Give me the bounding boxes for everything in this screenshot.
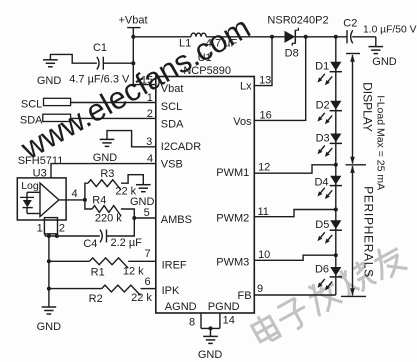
svg-text:Lx: Lx <box>240 80 252 92</box>
svg-text:2: 2 <box>59 222 65 234</box>
wire pin15 stub <box>133 84 156 86</box>
svg-text:D6: D6 <box>315 263 329 275</box>
svg-text:Vbat: Vbat <box>161 83 184 95</box>
wire pin10 PWM3 to LED node <box>254 255 335 260</box>
SDA input connector <box>43 114 71 121</box>
dimension tick top <box>346 53 360 55</box>
capacitor C1 <box>97 57 99 70</box>
svg-text:L1: L1 <box>179 37 191 49</box>
node +Vbat/rail junction <box>131 35 135 39</box>
svg-text:PWM3: PWM3 <box>216 256 249 268</box>
inductor L1 <box>191 33 206 37</box>
svg-text:AMBS: AMBS <box>161 214 192 226</box>
wire C4 to AMBS node <box>107 218 135 236</box>
photodiode inside U3 <box>26 192 28 200</box>
resistor R1 <box>90 258 129 268</box>
svg-text:16: 16 <box>259 110 271 122</box>
svg-text:FB: FB <box>238 290 252 302</box>
wire bus to R1 <box>49 260 90 262</box>
svg-text:IPK: IPK <box>162 285 180 297</box>
wire pin11 PWM2 to LED node <box>254 210 335 217</box>
svg-text:D8: D8 <box>285 47 299 59</box>
wire pin13 Lx to rail <box>254 37 272 86</box>
svg-text:SCL: SCL <box>21 99 42 111</box>
op-amp (log amp) inside U3 <box>40 183 59 217</box>
svg-text:9: 9 <box>257 283 263 295</box>
ground (AGND/PGND) <box>203 335 218 337</box>
node D3/D4 junction <box>334 163 338 167</box>
svg-text:7: 7 <box>144 248 150 260</box>
node R2 junction <box>47 287 51 291</box>
svg-text:SDA: SDA <box>20 114 43 126</box>
svg-text:3: 3 <box>146 136 152 148</box>
ground (I2CADR) <box>100 138 115 140</box>
LED D5 <box>330 220 341 229</box>
dimension tick middle <box>346 164 367 166</box>
svg-text:U1: U1 <box>198 52 212 64</box>
wire ground bus <box>48 236 50 307</box>
svg-text:12 k: 12 k <box>123 266 144 278</box>
svg-text:2.2 µF: 2.2 µF <box>110 237 142 249</box>
wire to GND <box>210 328 212 336</box>
svg-text:www.elecfans.com: www.elecfans.com <box>14 10 256 167</box>
wire U3 pin2 down <box>56 234 58 236</box>
resistor R4 <box>92 206 121 216</box>
svg-text:SDA: SDA <box>161 119 184 131</box>
resistor R2 <box>102 285 141 295</box>
node R1 junction <box>47 259 51 263</box>
wire down to GND <box>375 37 377 47</box>
svg-text:VSB: VSB <box>161 158 183 170</box>
wire diode bottom to amp <box>27 213 41 215</box>
svg-text:1.0 µF/50 V: 1.0 µF/50 V <box>363 24 417 35</box>
wire pin8 AGND down <box>200 313 202 328</box>
wire pin5 AMBS stub <box>134 217 156 219</box>
svg-text:Vos: Vos <box>233 116 252 128</box>
wire diode top to amp <box>27 191 40 193</box>
node C1 junction <box>131 61 135 65</box>
svg-text:NCP5890: NCP5890 <box>183 65 231 77</box>
svg-text:R4: R4 <box>92 195 106 207</box>
LED D1 <box>330 62 341 71</box>
wire pin4 VSB to U3 <box>51 164 156 178</box>
dimension line PERIPHERALS <box>352 166 354 296</box>
svg-text:1: 1 <box>37 222 43 234</box>
node pin1 junction <box>47 234 51 238</box>
svg-text:GND: GND <box>37 321 62 333</box>
svg-text:GND: GND <box>372 56 397 68</box>
svg-text:C4: C4 <box>83 238 97 250</box>
resistor R3 <box>88 180 121 190</box>
wire +Vbat vertical to pin15 <box>132 28 134 85</box>
op-amp driver IC U1 NCP5890 <box>156 77 255 314</box>
svg-text:GND: GND <box>198 349 223 361</box>
svg-text:4.7 µF: 4.7 µF <box>206 38 238 50</box>
wire L1 to D8 <box>206 36 284 38</box>
LED D4 <box>330 176 341 185</box>
wire pin14 PGND down <box>219 313 221 328</box>
ground (R3) <box>136 184 151 186</box>
wire pins to C4 <box>45 235 100 237</box>
wire SDA to pin2 <box>71 117 156 119</box>
wire GND to C1 <box>50 54 97 63</box>
node AGND/PGND junction <box>209 326 213 330</box>
capacitor C2 <box>346 30 348 43</box>
svg-text:14: 14 <box>223 315 235 327</box>
svg-text:D1: D1 <box>315 60 329 72</box>
wire R3 to GND <box>121 175 143 185</box>
svg-text:PWM2: PWM2 <box>216 213 249 225</box>
wire LED column <box>335 37 337 295</box>
svg-text:PERIPHERALS: PERIPHERALS <box>362 186 376 278</box>
wire pin12 PWM1 to LED node <box>254 165 335 173</box>
svg-text:8: 8 <box>189 316 195 328</box>
svg-text:GND: GND <box>37 75 62 87</box>
capacitor C4 <box>100 230 102 243</box>
svg-text:I-Load Max = 25 mA: I-Load Max = 25 mA <box>374 95 386 190</box>
wire rail to L1 <box>133 36 191 38</box>
dimension tick bottom <box>341 295 366 297</box>
svg-text:4: 4 <box>71 188 77 200</box>
node D5/D6 junction <box>334 253 338 257</box>
node D4/D5 junction <box>334 208 338 212</box>
svg-text:SCL: SCL <box>161 101 182 113</box>
svg-text:+Vbat: +Vbat <box>118 15 147 27</box>
svg-text:D2: D2 <box>316 100 330 112</box>
svg-text:220 k: 220 k <box>95 212 122 224</box>
wire R4 to pin5 <box>121 209 134 218</box>
diode D8 (Schottky) <box>285 31 296 43</box>
svg-text:PWM1: PWM1 <box>216 167 249 179</box>
svg-text:GND: GND <box>130 196 155 208</box>
svg-text:SFH5711: SFH5711 <box>18 155 64 167</box>
svg-text:R1: R1 <box>91 267 105 279</box>
svg-text:DISPLAY: DISPLAY <box>360 82 374 132</box>
watermark 电子发烧友 <box>249 311 280 345</box>
wire pin16 Vos to rail <box>254 37 305 121</box>
svg-text:D3: D3 <box>316 132 330 144</box>
SCL input connector <box>44 98 71 105</box>
svg-text:C1: C1 <box>93 42 107 54</box>
svg-text:12: 12 <box>258 162 270 174</box>
svg-text:I2CADR: I2CADR <box>161 141 201 153</box>
svg-text:IREF: IREF <box>162 260 187 272</box>
svg-text:PGND: PGND <box>208 301 240 313</box>
LED D3 <box>330 134 341 143</box>
node Lx junction <box>270 35 274 39</box>
svg-text:NSR0240P2: NSR0240P2 <box>267 14 328 26</box>
svg-text:R2: R2 <box>89 293 103 305</box>
node AMBS junction <box>132 216 136 220</box>
U3 output stage box <box>44 218 57 234</box>
svg-text:C2: C2 <box>343 18 357 30</box>
node LED column top junction <box>334 35 338 39</box>
wire pin9 FB to LED column <box>254 294 335 296</box>
svg-text:D5: D5 <box>315 219 329 231</box>
wire R1 to pin7 IREF <box>128 260 156 262</box>
wire GND to pin3 I2CADR <box>107 131 156 147</box>
wire U3 output node 4 <box>59 199 85 201</box>
+Vbat terminal bar <box>127 27 140 29</box>
svg-text:10: 10 <box>258 249 270 261</box>
wire SCL to pin1 <box>71 102 156 104</box>
node Vos junction <box>304 35 308 39</box>
node 4 junction <box>83 198 87 202</box>
LED D2 <box>330 101 341 110</box>
wire D8 to C2 <box>295 36 347 38</box>
wire R2 to pin6 IPK <box>141 288 156 290</box>
svg-text:22 k: 22 k <box>131 292 152 304</box>
wire bus to R2 <box>49 288 102 290</box>
svg-text:AGND: AGND <box>165 301 197 313</box>
wire AGND-PGND join <box>201 327 220 329</box>
dimension line DISPLAY <box>352 55 354 164</box>
wire C1 to +Vbat line <box>104 62 134 64</box>
ground (sensor bus) <box>42 306 57 308</box>
wire node4 up to R3 <box>85 183 88 200</box>
sensor U3 box <box>17 178 66 220</box>
svg-text:GND: GND <box>93 152 118 164</box>
svg-text:13: 13 <box>259 74 271 86</box>
svg-text:6: 6 <box>144 276 150 288</box>
wire C2 to GND <box>352 36 376 38</box>
svg-text:5: 5 <box>144 207 150 219</box>
svg-text:R3: R3 <box>100 168 114 180</box>
svg-text:D4: D4 <box>314 176 328 188</box>
LED D6 <box>330 267 341 276</box>
svg-text:Log: Log <box>21 180 39 192</box>
ground (C1) <box>43 59 58 61</box>
ground (C2) <box>369 46 384 48</box>
svg-text:4.7 µF/6.3 V: 4.7 µF/6.3 V <box>69 74 130 86</box>
wire U3 pin1 down <box>44 234 46 236</box>
wire node4 down to R4 <box>85 200 92 209</box>
node pin2 junction <box>55 234 59 238</box>
